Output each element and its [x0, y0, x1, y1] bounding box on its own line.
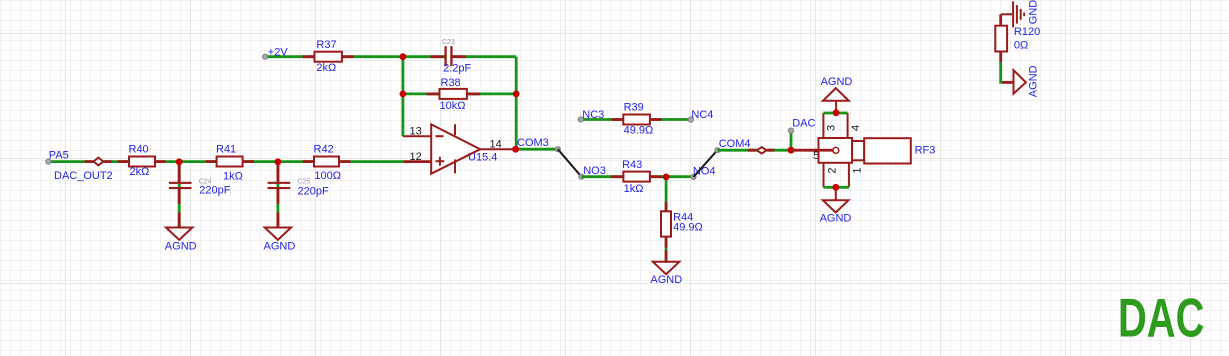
resistor R37 — [315, 52, 342, 62]
net tie diamond stubs on PA5 wire — [85, 160, 93, 163]
svg-text:RF3: RF3 — [915, 144, 936, 156]
net tie diamond (PA5/DAC_OUT2) — [94, 158, 104, 166]
svg-text:AGND: AGND — [820, 212, 852, 224]
junction dot (+2V / feedback top left) — [400, 53, 407, 60]
resistor R42 leads — [303, 160, 315, 163]
wire: C23 top branch — [403, 55, 516, 58]
net tie diamond (COM4/DAC) — [757, 147, 767, 153]
RF3 pin 1 — [848, 163, 850, 188]
svg-text:2.2pF: 2.2pF — [443, 63, 471, 75]
resistor R40 — [129, 157, 155, 167]
capacitor C23 leads — [430, 55, 444, 58]
svg-text:220pF: 220pF — [298, 185, 329, 197]
wire: C25 branch down from junction — [276, 162, 279, 228]
svg-text:1kΩ: 1kΩ — [624, 183, 644, 195]
wire (black): NO4 to COM4 — [694, 150, 718, 177]
junction dot (R40/R41/C24) — [176, 158, 183, 165]
junction dot (pins 2-1) — [832, 184, 839, 191]
junction dot (feedback right / R38) — [513, 91, 520, 98]
svg-text:U15.4: U15.4 — [468, 152, 497, 164]
svg-text:DAC_OUT2: DAC_OUT2 — [54, 170, 113, 182]
node PA5 port dot — [46, 159, 51, 164]
node NC4 port dot — [688, 117, 693, 122]
svg-text:0Ω: 0Ω — [1014, 40, 1028, 52]
resistor R44 (vertical) — [661, 211, 671, 236]
ground AGND (below R44) — [653, 262, 679, 274]
svg-text:R43: R43 — [622, 159, 642, 171]
capacitor C25 plates — [268, 182, 291, 184]
junction dot (pins 3-4) — [833, 109, 840, 116]
op-amp U15.4 triangle — [431, 124, 480, 173]
node COM3 port dot — [555, 147, 560, 152]
wire: NO3 to NO4, y=176.7 — [581, 175, 693, 178]
resistor R41 — [217, 157, 243, 167]
svg-text:49.9Ω: 49.9Ω — [673, 222, 703, 234]
wire: stem to bottom AGND — [835, 187, 837, 200]
svg-text:4: 4 — [850, 125, 862, 131]
power GND symbol (earth, rotated) top right — [1001, 13, 1013, 15]
svg-text:14: 14 — [490, 139, 502, 151]
svg-text:R41: R41 — [216, 144, 236, 156]
svg-text:COM3: COM3 — [517, 137, 549, 149]
wire: pins 3-4 tie (top) — [823, 112, 847, 115]
svg-text:12: 12 — [410, 151, 422, 163]
wire: main input net PA5 to op-amp pin 12, y=161.6 — [48, 160, 405, 163]
svg-text:R42: R42 — [314, 144, 334, 156]
RF3 pin 3 — [822, 113, 824, 139]
svg-text:AGND: AGND — [650, 274, 682, 286]
svg-text:13: 13 — [410, 125, 422, 137]
wire: R44 to AGND — [665, 237, 668, 262]
svg-text:AGND: AGND — [264, 241, 296, 253]
junction dot (output / feedback / COM3) — [512, 146, 519, 153]
svg-text:AGND: AGND — [165, 240, 197, 252]
svg-text:R40: R40 — [129, 144, 149, 156]
op-amp minus input mark — [436, 135, 444, 137]
connector RF3 pin 5 lead — [791, 149, 833, 152]
net tie diamond stubs on COM4 wire — [748, 149, 756, 152]
ground AGND (below C24) — [166, 228, 192, 240]
wire: R44 branch down — [665, 177, 668, 211]
op-amp plus input mark — [436, 160, 445, 162]
svg-text:GND: GND — [1028, 0, 1040, 24]
wire: R120 to AGND — [999, 52, 1002, 63]
wire: DAC port stub down to junction — [790, 133, 793, 151]
resistor R39 — [623, 115, 650, 125]
wire: GND to R120 — [999, 14, 1002, 26]
svg-text:C23: C23 — [442, 39, 455, 46]
svg-text:220pF: 220pF — [199, 185, 230, 197]
resistor R43 — [623, 172, 650, 182]
connector RF3 main box — [819, 138, 853, 163]
svg-text:AGND: AGND — [1028, 65, 1040, 97]
wire: NC3 to NC4, y=119.5 — [581, 118, 691, 121]
svg-text:R37: R37 — [316, 39, 336, 51]
wire: pins 2-1 tie (bottom) — [824, 186, 849, 189]
ground AGND (below RF3) — [823, 200, 849, 212]
capacitor C25 bottom stem — [276, 189, 279, 204]
capacitor C25 top stem — [276, 163, 279, 182]
resistor R37 leads — [303, 55, 315, 58]
resistor R39 leads — [612, 118, 624, 121]
resistor R42 — [314, 157, 339, 167]
svg-text:R39: R39 — [624, 102, 644, 114]
svg-text:DAC: DAC — [1118, 289, 1204, 350]
wire (black): COM3 to NO3 — [558, 149, 582, 177]
svg-text:COM4: COM4 — [719, 138, 751, 150]
svg-text:PA5: PA5 — [49, 149, 69, 161]
resistor R120 (vertical) — [995, 26, 1007, 52]
svg-text:3: 3 — [826, 125, 838, 131]
svg-text:100Ω: 100Ω — [314, 170, 341, 182]
svg-text:R120: R120 — [1014, 26, 1040, 38]
wire: feedback left vertical — [401, 57, 404, 137]
svg-text:DAC: DAC — [792, 118, 815, 130]
svg-text:NC4: NC4 — [691, 109, 713, 121]
junction dot (COM4/DAC/RF3) — [788, 147, 795, 154]
svg-text:49.9Ω: 49.9Ω — [624, 125, 654, 137]
RF3 pin 4 — [847, 113, 849, 139]
op-amp positive supply bar — [454, 124, 456, 135]
wire: +2V feed, y=56.7 — [265, 55, 403, 58]
connector RF3 neck — [852, 141, 864, 160]
node COM4 port dot — [715, 148, 720, 153]
RF3 pin 5 interior lead — [819, 149, 833, 152]
connector RF3 barrel — [864, 138, 911, 163]
resistor R38 — [440, 89, 467, 99]
junction dot (feedback left / R38) — [400, 91, 407, 98]
svg-text:NC3: NC3 — [582, 109, 604, 121]
op-amp U15.4 pin 13 lead — [403, 135, 431, 137]
ground AGND (above RF3, pointing up) — [823, 88, 849, 101]
node NO4 port dot — [691, 174, 696, 179]
wire: COM3 stub — [516, 148, 558, 151]
svg-text:AGND: AGND — [821, 76, 853, 88]
node NO3 port dot — [579, 174, 584, 179]
RF3 pin 5 terminator circle — [833, 147, 839, 153]
RF3 pin 2 — [823, 163, 825, 188]
wire: C24 branch down from junction — [178, 162, 181, 228]
svg-text:+2V: +2V — [268, 46, 289, 58]
node NC3 port dot — [578, 117, 583, 122]
node DAC port dot — [788, 128, 793, 133]
capacitor C23 plates — [447, 46, 451, 66]
svg-text:R38: R38 — [441, 77, 461, 89]
svg-text:10kΩ: 10kΩ — [440, 100, 466, 112]
capacitor C24 top stem — [178, 163, 181, 182]
wire: R38 branch — [403, 93, 516, 96]
resistor R43 leads — [611, 175, 624, 178]
svg-text:2kΩ: 2kΩ — [316, 62, 336, 74]
svg-text:NO4: NO4 — [693, 166, 716, 178]
op-amp U15.4 pin 12 lead — [404, 160, 431, 163]
resistor R38 leads — [427, 93, 440, 96]
svg-text:2: 2 — [826, 167, 838, 173]
junction dot (R41/R42/C25) — [275, 158, 282, 165]
resistor R40 leads — [118, 160, 130, 163]
wire: stem to top AGND — [835, 101, 837, 113]
junction dot (R43/NO4/R44) — [663, 174, 670, 181]
ground AGND (pointing right) — [1014, 70, 1026, 94]
ground AGND (below C25) — [265, 228, 291, 240]
wire: feedback right vertical — [515, 57, 518, 150]
capacitor C24 plates — [169, 182, 192, 184]
capacitor C24 bottom stem — [178, 189, 181, 204]
svg-text:1: 1 — [852, 167, 864, 173]
resistor R41 leads — [206, 160, 217, 163]
svg-text:2kΩ: 2kΩ — [130, 166, 150, 178]
svg-text:1kΩ: 1kΩ — [223, 170, 243, 182]
node +2V port dot — [263, 54, 268, 59]
op-amp U15.4 output pin 14 lead — [480, 148, 515, 150]
op-amp negative supply bar — [454, 160, 456, 174]
wire: COM4 to RF3 pin5 row, y=150.2 — [717, 149, 791, 152]
